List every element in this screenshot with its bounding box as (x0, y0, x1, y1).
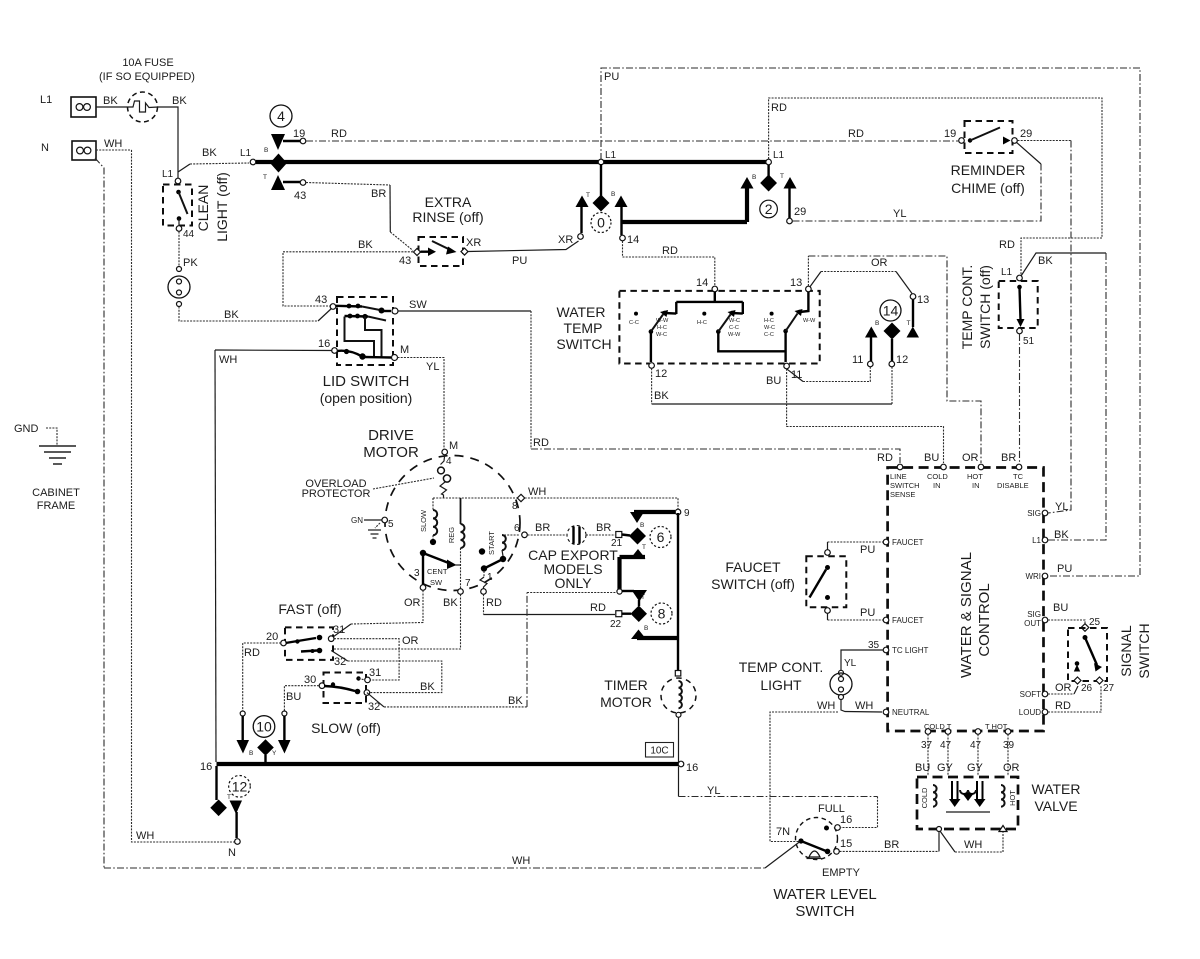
svg-text:BU: BU (766, 375, 781, 387)
svg-text:N: N (228, 847, 236, 859)
terminal 9 (675, 508, 690, 519)
svg-text:YL: YL (1055, 501, 1068, 513)
wire lamp BK to lid switch 43 (179, 307, 318, 322)
svg-text:SLOW: SLOW (419, 509, 428, 532)
arrow 13 arm (907, 327, 920, 338)
wts contact 3 (764, 292, 816, 363)
terminal L1 right (1032, 529, 1069, 545)
wire B arm to thick horizontal (745, 188, 749, 222)
terminal 15 (834, 838, 853, 854)
svg-text:PU: PU (1057, 563, 1072, 575)
node L1 circled2 (766, 150, 785, 165)
valve hot coil (1001, 785, 1017, 807)
wire T arm to N (235, 812, 237, 838)
wire lamp to neutral (841, 700, 882, 713)
svg-text:H-C: H-C (764, 318, 774, 324)
svg-text:RD: RD (244, 647, 260, 659)
svg-text:RINSE (off): RINSE (off) (412, 209, 483, 225)
svg-text:29: 29 (1020, 128, 1032, 140)
svg-text:EXTRA: EXTRA (425, 194, 472, 210)
svg-text:WATER & SIGNAL: WATER & SIGNAL (958, 552, 975, 678)
svg-text:6: 6 (657, 529, 665, 545)
wire WH left branch (770, 712, 838, 842)
terminal XR (558, 234, 583, 246)
arrow 19 junction (271, 134, 285, 150)
arrow XR arm (576, 196, 589, 208)
svg-text:SWITCH: SWITCH (890, 481, 920, 490)
label TEMP CONT. LIGHT (739, 659, 824, 693)
wire SW to RD (398, 310, 531, 312)
svg-text:L1: L1 (40, 94, 52, 106)
wire BK extra rinse to lid switch (283, 252, 413, 306)
svg-text:W-C: W-C (656, 332, 667, 338)
terminal line switch sense (890, 464, 920, 499)
svg-text:TEMP: TEMP (564, 320, 603, 336)
terminal 29 (787, 206, 807, 224)
svg-text:T: T (227, 794, 231, 801)
svg-text:GND: GND (14, 423, 39, 435)
svg-text:XR: XR (466, 237, 481, 249)
terminal 14 wts (696, 277, 718, 292)
arrow B 6 (630, 512, 644, 523)
svg-text:OR: OR (1003, 762, 1020, 774)
svg-text:PU: PU (512, 255, 527, 267)
label EXTRA RINSE (off) (412, 194, 483, 225)
wire YL bus to water level (678, 767, 680, 797)
wire YL right vertical (1048, 141, 1071, 514)
valve center symbols (946, 781, 990, 812)
svg-text:TEMP CONT.: TEMP CONT. (739, 659, 824, 675)
svg-text:L1: L1 (605, 150, 617, 161)
fuse F1 (127, 92, 158, 122)
wire 11 diagonal to free 11 (787, 369, 803, 382)
svg-text:SWITCH: SWITCH (795, 903, 854, 920)
terminal LOUD (1019, 700, 1071, 717)
svg-text:T: T (641, 594, 645, 601)
wire BR with capacitor (528, 522, 616, 545)
terminal cold in (924, 452, 948, 490)
svg-text:REG: REG (447, 527, 456, 543)
wire BK lead to bus (178, 164, 190, 172)
timer motor (661, 671, 696, 763)
svg-text:BR: BR (535, 522, 550, 534)
svg-text:LINE: LINE (890, 472, 907, 481)
10A fuse label (99, 57, 195, 83)
arrow 43 junction (271, 175, 285, 190)
svg-text:L1: L1 (773, 150, 785, 161)
svg-text:RD: RD (331, 128, 347, 140)
node circled 12 (229, 776, 251, 798)
svg-text:M: M (449, 440, 458, 452)
wire SIG OUT to 25 (1048, 620, 1085, 626)
link 6 to 8 (617, 549, 647, 606)
label CLEAN LIGHT (off) vertical (195, 172, 230, 242)
wire 31 to slow 31 (334, 639, 399, 680)
terminal SIG OUT (1024, 602, 1068, 628)
svg-text:B: B (640, 522, 644, 529)
svg-text:12: 12 (232, 778, 248, 794)
wire fuse to clean light (157, 107, 178, 178)
svg-text:B: B (644, 625, 648, 632)
svg-text:BK: BK (202, 147, 217, 159)
bus 16 thick (217, 762, 679, 766)
thick RD arm (241, 716, 243, 740)
svg-text:LIGHT (off): LIGHT (off) (214, 172, 230, 242)
svg-text:GY: GY (967, 762, 984, 774)
arrow 14 arm (615, 196, 628, 208)
terminal L1 bus left (250, 159, 256, 165)
svg-text:RD: RD (1055, 700, 1071, 712)
svg-text:B: B (264, 147, 268, 154)
wire 44 to lamp (178, 232, 180, 267)
svg-text:16: 16 (686, 762, 698, 774)
svg-text:M: M (400, 344, 409, 356)
ground GND (14, 423, 76, 464)
svg-text:32: 32 (334, 656, 346, 668)
wire PU top loop (601, 68, 1140, 576)
svg-text:15: 15 (840, 838, 852, 850)
svg-text:WRI: WRI (1025, 572, 1041, 581)
terminal 5 GN (351, 516, 394, 538)
clean light switch L1 terminal (162, 169, 181, 184)
wire 43 to extra rinse BR (306, 183, 390, 186)
svg-text:REMINDER: REMINDER (951, 162, 1026, 178)
svg-text:SW: SW (409, 299, 427, 311)
wts contact 2 (697, 310, 786, 351)
svg-text:H-C: H-C (697, 320, 707, 326)
svg-text:12: 12 (655, 368, 667, 380)
svg-text:DRIVE: DRIVE (368, 427, 414, 444)
svg-text:HOT: HOT (1008, 790, 1017, 806)
water valve box (917, 777, 1018, 829)
node circled 0 (591, 213, 611, 233)
svg-text:HOT: HOT (967, 472, 983, 481)
svg-text:WH: WH (964, 839, 982, 851)
svg-text:RD: RD (486, 597, 502, 609)
valve cold coil (920, 785, 937, 808)
wire 35 TC light to lamp (841, 640, 884, 670)
svg-text:BK: BK (1054, 529, 1069, 541)
svg-text:T: T (263, 174, 267, 181)
svg-text:6: 6 (514, 523, 520, 534)
wire 13 upper branch (810, 272, 821, 288)
wire OR 3 to fast31 (351, 590, 423, 624)
svg-text:8: 8 (658, 606, 666, 622)
terminal 43 (294, 180, 306, 202)
svg-text:35: 35 (868, 640, 880, 651)
svg-text:MOTOR: MOTOR (363, 444, 419, 461)
svg-text:WH: WH (104, 138, 122, 150)
stub diamond to bus (264, 755, 266, 763)
junction diamond bus left (270, 154, 287, 173)
label CABINET FRAME (32, 487, 80, 512)
svg-text:PU: PU (604, 71, 619, 83)
wire RD 19 to chime (306, 140, 958, 142)
svg-text:12: 12 (896, 354, 908, 366)
wire BK 12 to free 12 (651, 368, 653, 404)
terminal N (228, 839, 240, 859)
pointer line (373, 478, 434, 489)
svg-text:XR: XR (558, 234, 573, 246)
svg-text:51: 51 (1023, 336, 1035, 347)
svg-text:T: T (907, 320, 911, 327)
wire SOFT to 26 (1048, 693, 1074, 695)
terminal 7 (458, 578, 471, 594)
wire PU to XR terminal (468, 241, 579, 252)
wire LOUD to 27 (1048, 686, 1101, 712)
overload protector (438, 455, 451, 498)
svg-text:SIGNAL: SIGNAL (1118, 625, 1134, 677)
wire N box down long white wire (95, 158, 104, 868)
arrow below 8 (631, 630, 646, 640)
svg-text:WH: WH (136, 830, 154, 842)
reminder chime switch (944, 121, 1032, 153)
terminal 31 slow (365, 667, 382, 683)
svg-text:DISABLE: DISABLE (997, 481, 1029, 490)
svg-text:BK: BK (420, 681, 435, 693)
svg-text:GN: GN (351, 516, 363, 525)
node L1 on bus (598, 150, 616, 165)
node circled 6 (650, 527, 671, 548)
wire bus to diamond 12 (215, 766, 217, 800)
svg-text:GY: GY (937, 762, 954, 774)
wire 32 fast to slow (331, 651, 348, 662)
svg-text:CLEAN: CLEAN (195, 185, 211, 232)
valve bottom WH wire (937, 826, 1008, 853)
svg-text:VALVE: VALVE (1034, 798, 1077, 814)
svg-text:IN: IN (972, 481, 980, 490)
water level switch (776, 818, 838, 860)
wire faucet bottom PU (827, 613, 829, 620)
svg-text:SENSE: SENSE (890, 490, 915, 499)
label DRIVE MOTOR (363, 427, 419, 461)
svg-text:13: 13 (917, 294, 929, 306)
terminal 16 full (818, 803, 852, 830)
svg-text:B: B (752, 174, 756, 181)
label WATER & SIGNAL CONTROL vertical (958, 552, 993, 678)
svg-text:WH: WH (219, 354, 237, 366)
label START coil (479, 531, 520, 589)
svg-text:W-W: W-W (728, 332, 741, 338)
svg-text:BU: BU (286, 691, 301, 703)
svg-text:10: 10 (256, 719, 272, 735)
wire dotted to L1 terminal (190, 163, 249, 164)
junction diamond 2 (760, 175, 777, 192)
label WATER VALVE (1032, 781, 1081, 814)
svg-text:C-C: C-C (629, 320, 639, 326)
terminal 6 motor (514, 523, 527, 538)
svg-text:BR: BR (596, 522, 611, 534)
terminal tc disable (997, 452, 1029, 490)
terminal WH diamond (512, 486, 546, 512)
junction diamond 10 (257, 739, 274, 756)
wts bracket (676, 292, 743, 315)
svg-text:47: 47 (940, 740, 952, 751)
svg-text:L1: L1 (1032, 536, 1041, 545)
svg-text:44: 44 (183, 229, 195, 240)
svg-text:47: 47 (970, 740, 982, 751)
svg-text:37: 37 (921, 740, 933, 751)
svg-text:WH: WH (512, 855, 530, 867)
svg-text:TIMER: TIMER (604, 677, 648, 693)
svg-text:BR: BR (884, 839, 899, 851)
svg-text:CABINET: CABINET (32, 487, 80, 499)
wire RD loop chime (769, 98, 1102, 275)
svg-text:39: 39 (1003, 740, 1015, 751)
svg-text:26: 26 (1081, 683, 1093, 694)
svg-text:NEUTRAL: NEUTRAL (892, 708, 930, 717)
terminal SOFT (1020, 682, 1072, 699)
wire WH to 9 (525, 498, 678, 509)
svg-text:OR: OR (871, 257, 888, 269)
arrow T arm (784, 177, 797, 189)
label TIMER MOTOR (600, 677, 652, 710)
svg-text:16: 16 (318, 338, 330, 350)
label REG coil (447, 498, 465, 589)
svg-text:FAUCET: FAUCET (892, 538, 924, 547)
terminal 11 free (852, 354, 873, 367)
svg-text:SWITCH: SWITCH (1136, 623, 1152, 678)
svg-text:TEMP CONT.: TEMP CONT. (959, 265, 975, 350)
clean light switch (163, 185, 192, 227)
svg-text:L1: L1 (240, 148, 252, 159)
terminal 11 wts (784, 363, 803, 381)
svg-text:N: N (41, 142, 49, 154)
terminal 21 (611, 532, 630, 550)
svg-text:31: 31 (333, 624, 345, 636)
svg-text:9: 9 (684, 508, 690, 519)
temp cont switch box (999, 281, 1038, 328)
svg-text:WATER: WATER (557, 304, 606, 320)
svg-text:20: 20 (266, 631, 278, 643)
svg-text:B: B (611, 191, 615, 198)
svg-text:ONLY: ONLY (554, 575, 592, 591)
svg-text:OR: OR (404, 597, 421, 609)
label WATER LEVEL SWITCH (773, 886, 876, 920)
terminal neutral (883, 708, 930, 717)
svg-text:C-C: C-C (764, 332, 774, 338)
bus L1 thick (256, 160, 766, 164)
wire BU 30 (284, 686, 319, 711)
svg-text:BK: BK (508, 695, 523, 707)
svg-text:7: 7 (465, 578, 471, 589)
svg-text:27: 27 (1103, 683, 1115, 694)
svg-text:PU: PU (860, 544, 875, 556)
wire WH diagonal (765, 842, 800, 869)
svg-text:29: 29 (794, 206, 806, 218)
svg-text:2: 2 (765, 201, 773, 217)
wire M YL to drive motor (398, 358, 445, 450)
svg-text:BK: BK (443, 597, 458, 609)
wire YL 29 to chime (793, 164, 1042, 221)
svg-text:BK: BK (172, 95, 187, 107)
svg-text:BK: BK (103, 95, 118, 107)
svg-text:SOFT: SOFT (1020, 690, 1041, 699)
node circled 4 (270, 105, 292, 127)
thick wire 9 bus (634, 510, 675, 514)
wire L1 to fuse (96, 106, 127, 108)
svg-text:0: 0 (597, 215, 605, 231)
node circled 2 (760, 200, 778, 218)
terminal 19 (293, 128, 306, 144)
svg-text:RD: RD (999, 239, 1015, 251)
svg-text:WH: WH (817, 700, 835, 712)
svg-text:W-C: W-C (729, 318, 740, 324)
slow switch (319, 673, 366, 704)
svg-text:16: 16 (840, 814, 852, 826)
svg-text:BK: BK (1038, 255, 1053, 267)
terminal 22 (610, 611, 631, 630)
wire WH 16 to left vertical (215, 349, 332, 352)
wire WH left vertical to N node (132, 150, 235, 842)
wire stub 19 (283, 140, 300, 142)
wire stub L1 down (767, 165, 769, 176)
svg-text:FRAME: FRAME (37, 500, 76, 512)
wire BU 11 to cold in (787, 369, 944, 463)
svg-text:W-W: W-W (656, 318, 669, 324)
svg-text:LOUD: LOUD (1019, 708, 1041, 717)
wire BK 7 to fast32 (333, 594, 461, 649)
svg-text:RD: RD (771, 102, 787, 114)
svg-text:BU: BU (924, 452, 939, 464)
wire long WH bottom (104, 867, 765, 869)
svg-text:WATER LEVEL: WATER LEVEL (773, 886, 876, 903)
svg-text:16: 16 (200, 761, 212, 773)
svg-text:L1: L1 (1001, 267, 1013, 278)
svg-text:(open position): (open position) (320, 390, 413, 406)
svg-text:RD: RD (590, 602, 606, 614)
svg-text:RD: RD (877, 452, 893, 464)
svg-text:SWITCH: SWITCH (556, 336, 611, 352)
terminal N (41, 141, 96, 160)
wire N to WH vertical (96, 149, 132, 151)
extra rinse switch (414, 237, 469, 266)
svg-text:YL: YL (844, 658, 857, 669)
svg-text:B: B (249, 750, 253, 757)
svg-text:SWITCH (off): SWITCH (off) (711, 576, 795, 592)
terminal 12 free (889, 354, 908, 367)
junction diamond 0 (593, 195, 610, 212)
wire 11 arm down (870, 337, 872, 362)
svg-text:T: T (642, 544, 646, 551)
wire 12 arm down (891, 339, 893, 362)
svg-text:COLD: COLD (927, 472, 948, 481)
wire BR 51 to TC disable (1019, 334, 1021, 462)
terminal RD col (240, 711, 245, 716)
svg-text:IN: IN (933, 481, 941, 490)
terminal faucet upper (883, 538, 923, 547)
svg-text:OUT: OUT (1024, 619, 1041, 628)
svg-text:BK: BK (358, 239, 373, 251)
svg-text:L1: L1 (162, 169, 174, 180)
wire OR 13 net (807, 256, 809, 286)
svg-text:RD: RD (662, 245, 678, 257)
svg-text:OR: OR (1055, 682, 1072, 694)
arrow Y 10 (278, 740, 291, 754)
svg-text:WATER: WATER (1032, 781, 1081, 797)
wire stub 43 (283, 181, 300, 183)
svg-text:C-C: C-C (729, 325, 739, 331)
arrow B arm (741, 177, 754, 189)
svg-text:SLOW (off): SLOW (off) (311, 720, 381, 736)
svg-text:START: START (487, 531, 496, 555)
svg-text:43: 43 (315, 294, 327, 306)
svg-text:CHIME (off): CHIME (off) (951, 180, 1025, 196)
svg-text:OR: OR (402, 635, 419, 647)
label WATER TEMP SWITCH (556, 304, 611, 352)
wire RD 20 (243, 643, 281, 711)
wires to valve (927, 734, 929, 776)
